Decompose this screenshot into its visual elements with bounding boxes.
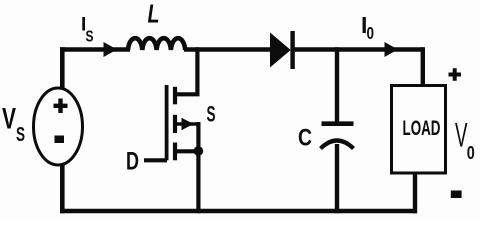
svg-text:LOAD: LOAD <box>403 117 441 140</box>
label - (output polarity) <box>451 191 462 199</box>
wire: source top lead <box>60 47 65 88</box>
voltage source VS <box>34 88 83 165</box>
svg-text:V: V <box>455 117 468 155</box>
svg-text:C: C <box>298 124 312 151</box>
svg-text:L: L <box>148 1 160 29</box>
junction dot at MOSFET source <box>194 146 204 156</box>
svg-text:S: S <box>207 101 216 126</box>
current arrow IO <box>385 42 399 57</box>
svg-text:0: 0 <box>367 23 375 43</box>
MOSFET switch Q1: channel segments <box>173 87 177 161</box>
wire: source bottom lead <box>60 164 65 213</box>
MOSFET switch Q1: body lead with arrow <box>176 118 199 130</box>
wire: load top lead <box>421 47 425 86</box>
MOSFET switch Q1: source lead <box>176 122 199 213</box>
wire: bottom rail <box>60 209 417 214</box>
wire: capacitor top lead <box>335 47 339 122</box>
svg-text:S: S <box>86 29 94 46</box>
wire: top rail left segment <box>60 47 130 52</box>
svg-text:V: V <box>2 103 16 136</box>
MOSFET switch Q1: drain lead <box>175 47 200 94</box>
inductor L <box>128 38 185 50</box>
load resistor <box>392 86 446 174</box>
wire: load bottom lead <box>413 173 417 213</box>
wire: top rail right segment <box>293 47 423 52</box>
current arrow IS <box>104 42 118 57</box>
wire: top rail middle segment <box>184 47 272 52</box>
MOSFET switch Q1: gate bar and gate lead <box>144 85 167 160</box>
svg-text:D: D <box>126 148 139 176</box>
label + (output polarity) <box>449 68 462 81</box>
svg-text:0: 0 <box>467 143 475 163</box>
svg-text:S: S <box>16 124 25 146</box>
diode D1 <box>270 31 293 69</box>
wire: capacitor bottom lead <box>335 144 339 213</box>
capacitor C <box>321 124 354 149</box>
